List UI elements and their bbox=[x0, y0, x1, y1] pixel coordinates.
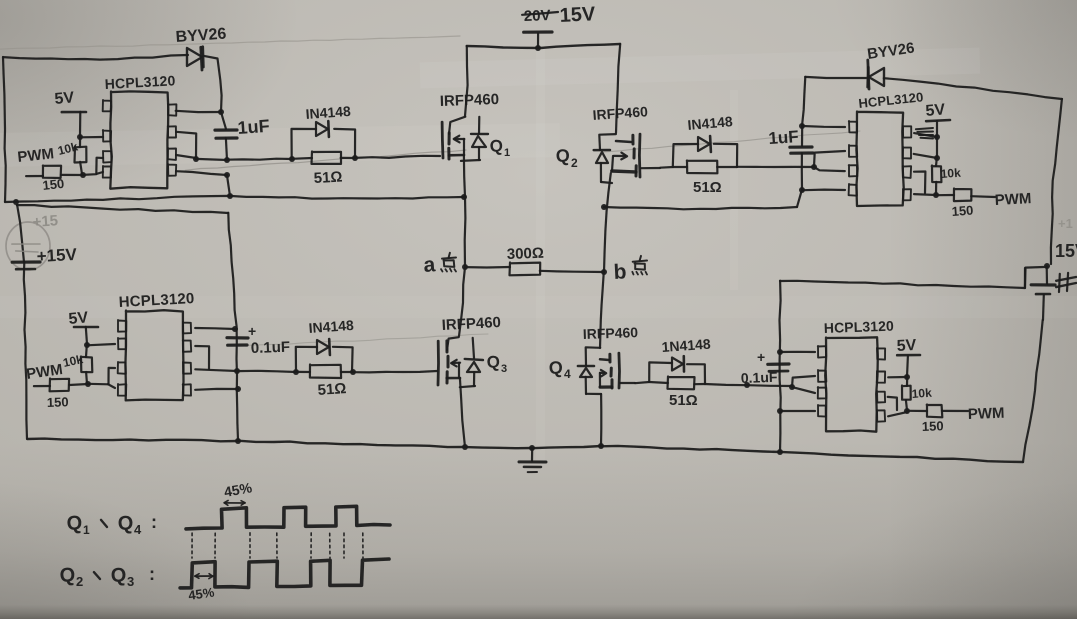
svg-text:HCPL3120: HCPL3120 bbox=[824, 318, 895, 336]
svg-text:10k: 10k bbox=[940, 166, 961, 181]
svg-text:IN4148: IN4148 bbox=[305, 103, 351, 122]
svg-text:3: 3 bbox=[501, 363, 507, 375]
svg-text:+: + bbox=[757, 349, 765, 365]
svg-text:PWM: PWM bbox=[968, 405, 1005, 423]
svg-text:5V: 5V bbox=[925, 101, 946, 120]
svg-text:2: 2 bbox=[76, 574, 83, 589]
svg-text:51Ω: 51Ω bbox=[313, 169, 343, 187]
svg-text:+: + bbox=[248, 323, 256, 339]
svg-text:150: 150 bbox=[47, 394, 69, 410]
svg-text:150: 150 bbox=[951, 203, 974, 219]
svg-text:10k: 10k bbox=[911, 386, 932, 401]
svg-text:b: b bbox=[613, 260, 627, 284]
svg-text:IRFP460: IRFP460 bbox=[441, 314, 501, 334]
svg-text:1uF: 1uF bbox=[237, 116, 270, 138]
svg-text:150: 150 bbox=[42, 176, 65, 193]
svg-text:Q: Q bbox=[548, 358, 563, 378]
svg-text:IRFP460: IRFP460 bbox=[440, 91, 500, 110]
svg-text:Q: Q bbox=[555, 146, 570, 166]
svg-text:IN4148: IN4148 bbox=[308, 317, 354, 336]
svg-text:4: 4 bbox=[564, 367, 571, 381]
svg-text:+15V: +15V bbox=[36, 245, 78, 266]
svg-text:BYV26: BYV26 bbox=[175, 25, 227, 46]
svg-text:a: a bbox=[423, 253, 437, 277]
svg-text::: : bbox=[149, 564, 155, 584]
svg-text:1N4148: 1N4148 bbox=[661, 336, 711, 355]
svg-text:PWM: PWM bbox=[994, 190, 1032, 209]
svg-text:51Ω: 51Ω bbox=[693, 179, 722, 196]
svg-text:1: 1 bbox=[83, 523, 90, 537]
svg-text:51Ω: 51Ω bbox=[317, 380, 347, 399]
svg-text:Q: Q bbox=[486, 352, 500, 372]
svg-text:Q: Q bbox=[117, 512, 133, 535]
svg-text:15V: 15V bbox=[559, 3, 596, 27]
svg-text:5V: 5V bbox=[68, 309, 89, 328]
svg-text:0.1uF: 0.1uF bbox=[741, 369, 779, 386]
svg-text:15V: 15V bbox=[1055, 241, 1077, 261]
svg-text:300Ω: 300Ω bbox=[507, 245, 545, 263]
svg-text:Q: Q bbox=[59, 564, 76, 587]
svg-text::: : bbox=[151, 512, 157, 532]
svg-text:1uF: 1uF bbox=[768, 127, 799, 148]
svg-text:IRFP460: IRFP460 bbox=[583, 324, 639, 342]
svg-text:4: 4 bbox=[134, 522, 142, 537]
svg-text:Q: Q bbox=[66, 512, 83, 535]
svg-text:+1: +1 bbox=[1058, 216, 1073, 231]
svg-text:5V: 5V bbox=[54, 89, 75, 108]
svg-text:5V: 5V bbox=[896, 337, 917, 355]
svg-text:0.1uF: 0.1uF bbox=[251, 339, 291, 357]
svg-text:20V: 20V bbox=[524, 7, 551, 25]
svg-text:Q: Q bbox=[110, 564, 126, 587]
svg-text:51Ω: 51Ω bbox=[669, 392, 698, 409]
svg-text:2: 2 bbox=[571, 156, 578, 170]
svg-text:150: 150 bbox=[922, 418, 944, 434]
svg-text:Q: Q bbox=[489, 136, 503, 156]
svg-text:3: 3 bbox=[127, 574, 134, 589]
svg-text:+15: +15 bbox=[32, 212, 59, 231]
svg-text:1: 1 bbox=[504, 147, 510, 159]
